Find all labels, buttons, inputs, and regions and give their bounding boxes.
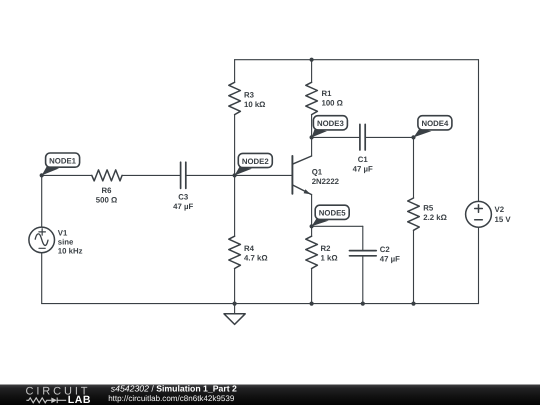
wire R6 to C3 — [122, 174, 180, 176]
svg-text:100 Ω: 100 Ω — [322, 98, 343, 107]
node NODE3 label callout — [312, 116, 348, 138]
capacitor C2 plates — [350, 251, 377, 256]
wire C2 to bottom rail — [362, 256, 364, 303]
wire V2 bottom branch — [478, 227, 480, 304]
svg-text:NODE4: NODE4 — [421, 119, 449, 128]
resistor R4 — [229, 236, 241, 268]
label R6 value — [96, 186, 117, 205]
wire NODE3 to C1 — [312, 136, 360, 138]
node NODE2 junction dot — [233, 173, 237, 177]
capacitor C3 plates — [181, 162, 186, 188]
svg-text:NODE3: NODE3 — [317, 119, 345, 128]
label V1 value — [58, 229, 83, 256]
node NODE5 label callout — [312, 205, 350, 226]
svg-text:4.7 kΩ: 4.7 kΩ — [244, 254, 268, 263]
resistor R1 — [306, 82, 318, 114]
svg-text:R3: R3 — [244, 90, 255, 99]
wire R3 to NODE2 — [234, 115, 236, 176]
wire NODE2 to R4 — [234, 175, 236, 236]
wire R4 to bottom rail — [234, 269, 236, 304]
wire C1 to NODE4 — [365, 136, 413, 138]
wire top rail to R3 — [234, 60, 236, 83]
svg-text:C1: C1 — [358, 155, 369, 164]
node NODE5 junction dot — [310, 224, 314, 228]
resistor R6 — [92, 170, 122, 181]
wire V1 top branch — [41, 175, 43, 227]
svg-text:NODE1: NODE1 — [49, 156, 77, 165]
wire R5 to bottom rail — [413, 230, 415, 303]
svg-text:47 µF: 47 µF — [380, 255, 400, 264]
svg-text:10 kHz: 10 kHz — [58, 247, 83, 256]
voltage source V1 circle — [29, 227, 55, 253]
wire NODE3 to Q1 collector — [311, 137, 313, 155]
label R5 value — [423, 203, 447, 222]
junction dot bottom rail / ground — [233, 302, 237, 306]
svg-text:http://circuitlab.com/c8n6tk42: http://circuitlab.com/c8n6tk42k9539 — [108, 394, 235, 403]
svg-text:500 Ω: 500 Ω — [96, 195, 117, 204]
wire R1 to NODE3 — [311, 115, 313, 138]
wire C3 to NODE2 — [186, 174, 234, 176]
wire ground stub — [234, 304, 236, 314]
label R3 value — [244, 90, 265, 109]
wire NODE5 to C2 — [312, 225, 363, 227]
wire V2 top branch — [478, 60, 480, 202]
voltage source V2 circle — [466, 201, 492, 227]
svg-text:sine: sine — [58, 238, 74, 247]
node NODE1 label callout — [42, 153, 80, 175]
svg-text:10 kΩ: 10 kΩ — [244, 100, 265, 109]
ground — [224, 314, 245, 325]
svg-text:R6: R6 — [102, 186, 113, 195]
wire bottom rail — [42, 303, 479, 305]
node NODE4 junction dot — [411, 135, 415, 139]
resistor R2 — [306, 236, 318, 268]
svg-text:LAB: LAB — [68, 394, 91, 405]
svg-text:R4: R4 — [244, 244, 255, 253]
footer logo resistor-diode symbol — [26, 398, 66, 404]
wire NODE5 to R2 — [311, 226, 313, 236]
svg-text:47 µF: 47 µF — [173, 202, 193, 211]
svg-text:2N2222: 2N2222 — [312, 177, 340, 186]
svg-text:R1: R1 — [322, 89, 333, 98]
wire top rail to R1 — [311, 60, 313, 83]
svg-text:15 V: 15 V — [495, 215, 512, 224]
node NODE1 junction dot — [40, 173, 44, 177]
wire NODE2 to Q1 base — [235, 174, 293, 176]
wire C2 top branch — [362, 226, 364, 250]
svg-text:C3: C3 — [178, 193, 189, 202]
label R1 value — [322, 89, 343, 108]
resistor R3 — [229, 82, 241, 114]
label V2 value — [495, 205, 512, 224]
label R4 value — [244, 244, 268, 263]
svg-text:47 µF: 47 µF — [353, 164, 373, 173]
svg-text:2.2 kΩ: 2.2 kΩ — [423, 213, 447, 222]
wire top rail — [235, 59, 479, 61]
svg-text:R5: R5 — [423, 203, 434, 212]
transistor Q1 — [291, 156, 293, 194]
wire NODE1 to R6 — [42, 174, 92, 176]
svg-text:V2: V2 — [495, 205, 505, 214]
junction dot bottom rail / C2 — [361, 302, 365, 306]
wire NODE4 to R5 — [413, 137, 415, 198]
node NODE4 label callout — [414, 116, 452, 138]
label C3 value — [173, 193, 193, 212]
capacitor C1 plates — [360, 124, 365, 150]
svg-text:NODE5: NODE5 — [319, 209, 347, 218]
node NODE3 junction dot — [310, 135, 314, 139]
label C2 value — [380, 245, 400, 264]
label R2 value — [321, 244, 338, 263]
wire Q1 emitter to NODE5 — [311, 195, 313, 226]
resistor R5 — [408, 198, 420, 230]
junction dot bottom rail / R2 — [310, 302, 314, 306]
svg-text:1 kΩ: 1 kΩ — [321, 254, 338, 263]
svg-text:C2: C2 — [380, 245, 391, 254]
junction dot bottom rail / R5 — [411, 302, 415, 306]
label C1 value — [353, 155, 373, 174]
junction dot top rail / R1 — [310, 58, 314, 62]
svg-text:s4542302 / Simulation 1_Part 2: s4542302 / Simulation 1_Part 2 — [111, 383, 237, 393]
svg-text:NODE2: NODE2 — [242, 157, 270, 166]
node NODE2 label callout — [235, 153, 273, 175]
wire R2 to bottom rail — [311, 269, 313, 304]
label Q1 value — [312, 167, 340, 186]
wire V1 bottom branch — [41, 253, 43, 304]
footer bar — [0, 385, 540, 406]
svg-text:Q1: Q1 — [312, 167, 323, 176]
svg-text:R2: R2 — [321, 244, 332, 253]
svg-text:V1: V1 — [58, 229, 68, 238]
